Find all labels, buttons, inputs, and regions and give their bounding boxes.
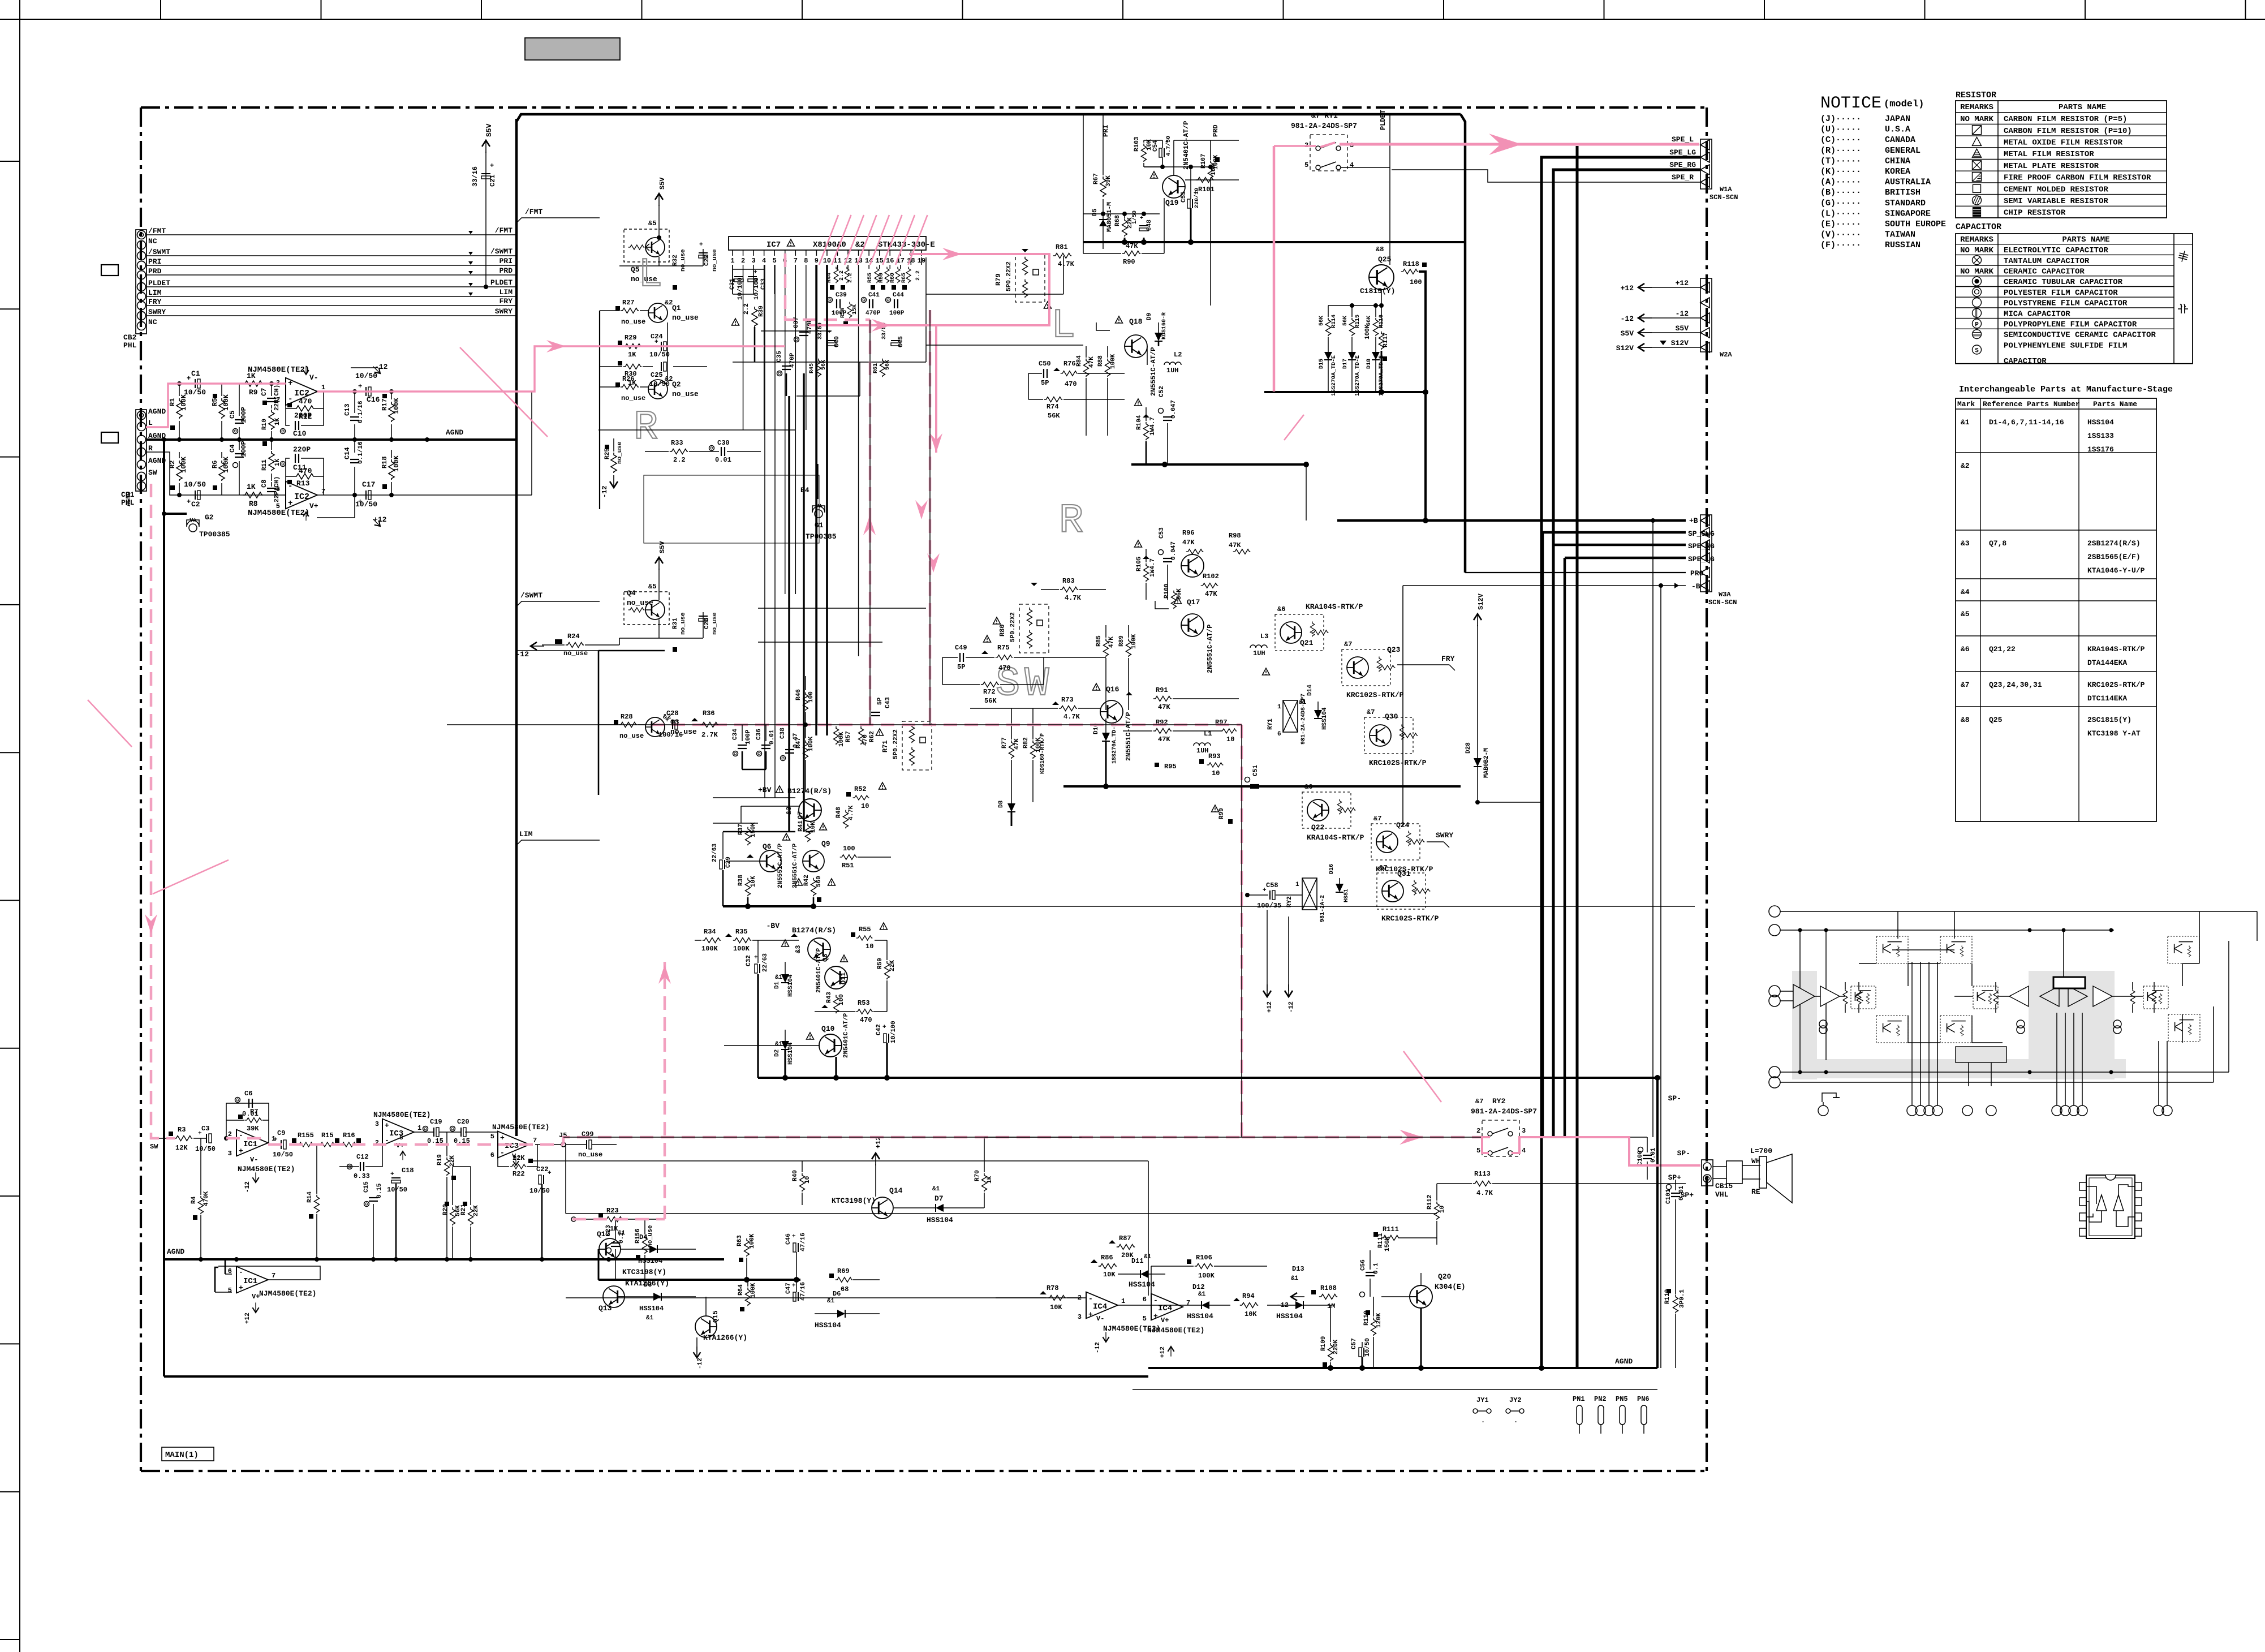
- capacitor C14: [354, 440, 355, 453]
- svg-text:R27: R27: [622, 299, 635, 307]
- svg-text:R91: R91: [1156, 686, 1168, 694]
- svg-text:V+: V+: [309, 502, 318, 510]
- svg-text:R116: R116: [1379, 315, 1385, 328]
- resistor R71 5P0.22X2: [902, 721, 932, 770]
- svg-text:R95: R95: [1164, 763, 1177, 771]
- svg-text:R42: R42: [803, 875, 810, 886]
- svg-text:C15: C15: [363, 1181, 370, 1193]
- relay RY1 coil: [1283, 700, 1298, 732]
- svg-text:R4: R4: [191, 1196, 197, 1204]
- svg-text:R43: R43: [826, 992, 833, 1003]
- svg-text:10: 10: [804, 1176, 811, 1184]
- svg-text:1SS270A_TD-E: 1SS270A_TD-E: [1355, 355, 1361, 396]
- connector CB2 PHL: [136, 230, 147, 334]
- resistor R13 470: [294, 474, 315, 479]
- svg-text:NOTICE: NOTICE: [1820, 94, 1881, 113]
- svg-text:R85: R85: [1096, 635, 1103, 647]
- svg-text:CB2: CB2: [123, 333, 137, 342]
- resistor R3 12K: [169, 1132, 173, 1136]
- svg-text:R54: R54: [840, 308, 846, 318]
- svg-text:R6: R6: [211, 461, 219, 468]
- svg-text:C4: C4: [229, 445, 236, 453]
- transistor Q3 (no_use): [645, 717, 665, 737]
- resistor R55b 10: [851, 932, 855, 937]
- svg-text:U.S.A: U.S.A: [1885, 125, 1910, 135]
- pink RY2 contact path: [1481, 1136, 1490, 1138]
- svg-text:R39: R39: [758, 306, 765, 317]
- svg-text:1: 1: [417, 1124, 421, 1132]
- svg-text:R40: R40: [792, 1170, 799, 1181]
- resistor R18: [391, 450, 392, 458]
- capacitor C37 470P: [794, 337, 799, 342]
- resistor R23 1K: [605, 1217, 623, 1222]
- resistor R107 100K: [1208, 161, 1213, 179]
- wire SPE_RG: [1553, 170, 1700, 1137]
- svg-text:5: 5: [228, 1287, 232, 1294]
- svg-text:R90: R90: [1123, 258, 1135, 266]
- svg-text:22K: 22K: [889, 960, 896, 971]
- svg-text:no_use: no_use: [621, 318, 645, 326]
- MAIN(1) label: [162, 1447, 214, 1461]
- capacitor C35 470P: [777, 371, 782, 376]
- svg-text:R59: R59: [877, 958, 884, 969]
- svg-text:2N5401C-AT/P: 2N5401C-AT/P: [1182, 121, 1190, 170]
- resistor R69 68: [836, 1277, 853, 1283]
- transistor Q14 KTC3198: [872, 1153, 880, 1165]
- svg-text:C58: C58: [1266, 881, 1278, 889]
- wire from IC7 pin9 to bottom: [815, 265, 817, 735]
- svg-text:R17: R17: [381, 398, 389, 411]
- svg-text:R101: R101: [1198, 186, 1215, 193]
- svg-text:5P: 5P: [877, 697, 884, 705]
- connector W3A SCN-SCN: [1700, 515, 1712, 592]
- svg-text:1: 1: [321, 384, 325, 392]
- speaker magnet: [1726, 1161, 1742, 1184]
- svg-text:KRA104S-RTK/P: KRA104S-RTK/P: [1306, 603, 1363, 611]
- svg-text:Q9: Q9: [821, 840, 830, 848]
- key box upper: [101, 265, 118, 276]
- svg-text:10: 10: [1212, 769, 1220, 777]
- wires Q18 area: [1147, 346, 1148, 365]
- svg-text:4: 4: [1350, 161, 1354, 169]
- svg-text:100K: 100K: [393, 397, 401, 414]
- svg-text:no_use: no_use: [578, 1151, 602, 1159]
- svg-text:-: -: [500, 1148, 505, 1157]
- svg-text:56K: 56K: [1319, 316, 1325, 326]
- block output pair bottom-mid: [1940, 1016, 1972, 1043]
- svg-text:R15: R15: [321, 1132, 334, 1139]
- svg-text:1SS176: 1SS176: [2087, 445, 2114, 454]
- svg-text:IC1: IC1: [243, 1140, 257, 1149]
- svg-text:R102: R102: [1203, 573, 1219, 580]
- pink trace IC7 hatches: [819, 215, 838, 265]
- svg-text:+: +: [239, 1284, 243, 1292]
- svg-text:PLDET: PLDET: [148, 279, 170, 287]
- svg-text:+: +: [753, 269, 757, 276]
- resistor R2: [179, 452, 180, 458]
- resistor R88 100K: [1105, 359, 1110, 377]
- svg-text:5P0.22X2: 5P0.22X2: [1006, 261, 1013, 291]
- capacitor C99 no_use: [587, 1140, 592, 1149]
- svg-text:5P: 5P: [957, 663, 965, 671]
- block resistors vertical: [1843, 989, 1848, 1005]
- pink trace down to L2: [935, 325, 937, 453]
- svg-text:120K: 120K: [1376, 1313, 1383, 1328]
- resistor R33 2.2: [670, 449, 688, 454]
- R29 C24 row: [618, 341, 622, 345]
- svg-text:CHINA: CHINA: [1885, 156, 1910, 166]
- svg-text:R: R: [1059, 498, 1083, 544]
- black wire under SW dash: [563, 1137, 1481, 1138]
- block driver pair left: [1851, 986, 1876, 1009]
- svg-text:2N5551C-AT/P: 2N5551C-AT/P: [777, 843, 784, 888]
- block driver pair right: [2143, 986, 2168, 1009]
- svg-text:B1274(R/S): B1274(R/S): [787, 787, 832, 795]
- junction J5: [561, 1142, 566, 1147]
- thick junction bus at 920: [1423, 518, 1428, 523]
- svg-text:R64: R64: [738, 1284, 744, 1296]
- svg-text:JAPAN: JAPAN: [1885, 114, 1910, 124]
- svg-text:10/50: 10/50: [273, 1151, 293, 1159]
- svg-text:&6: &6: [1277, 605, 1285, 613]
- pink annotation diagonals: [460, 347, 548, 437]
- svg-text:&4: &4: [1961, 588, 1970, 596]
- board outline MAIN dash-dot border: [141, 106, 1707, 109]
- capacitor C26 (no_use): [699, 616, 708, 621]
- svg-text:5: 5: [1476, 1147, 1480, 1155]
- svg-text:R61: R61: [873, 363, 879, 373]
- svg-text:2SB1274(R/S): 2SB1274(R/S): [2087, 539, 2141, 548]
- SWRY label and wire: [1427, 841, 1444, 842]
- block mid amp triangles: [2009, 986, 2029, 1006]
- svg-text:PN5: PN5: [1616, 1395, 1628, 1403]
- svg-text:AGND: AGND: [167, 1247, 184, 1256]
- svg-text:0.1/16: 0.1/16: [358, 401, 364, 423]
- svg-text:NJM4580E(TE2): NJM4580E(TE2): [238, 1165, 295, 1173]
- transistor Q2 (no_use): [648, 380, 668, 399]
- wire Q25 collector: [1419, 272, 1426, 392]
- pink trace IC7 output run: [809, 254, 1049, 325]
- AGND bus wire: [147, 438, 515, 441]
- block bottom pins: [1818, 1105, 1828, 1116]
- svg-text:D3: D3: [644, 1281, 652, 1289]
- svg-text:RUSSIAN: RUSSIAN: [1885, 240, 1920, 250]
- capacitor C15 0.15: [364, 1202, 369, 1207]
- svg-text:100K: 100K: [180, 394, 188, 411]
- svg-text:NC: NC: [148, 318, 157, 326]
- svg-text:C25: C25: [651, 371, 663, 379]
- svg-text:+: +: [699, 242, 703, 248]
- svg-text:STK433-330-E: STK433-330-E: [878, 240, 935, 249]
- svg-text:R71: R71: [881, 740, 889, 752]
- svg-text:L3: L3: [1260, 633, 1268, 640]
- block input amp triangles: [1793, 984, 1815, 1008]
- svg-text:R108: R108: [1320, 1284, 1337, 1292]
- svg-text:2: 2: [1476, 1127, 1480, 1135]
- capacitor C54 4.7/50: [1159, 148, 1164, 157]
- pink dashed SW source: [151, 484, 175, 1138]
- svg-text:+: +: [288, 499, 292, 508]
- block ground symbol: [1822, 1093, 1836, 1102]
- svg-text:C22: C22: [536, 1165, 549, 1173]
- svg-text:100K: 100K: [1110, 354, 1117, 369]
- svg-text:R55: R55: [859, 926, 871, 933]
- connector W1A SCN-SCN: [1700, 139, 1712, 189]
- svg-text:1K: 1K: [274, 418, 281, 425]
- svg-text:Q15: Q15: [712, 1310, 720, 1323]
- svg-text:981-2A-24DS-SP7: 981-2A-24DS-SP7: [1471, 1107, 1537, 1116]
- svg-text:LIM: LIM: [519, 830, 533, 838]
- capacitor C27 (no_use): [699, 253, 708, 258]
- block output pair top-left: [1876, 936, 1908, 963]
- svg-text:R13: R13: [296, 479, 310, 488]
- svg-text:R52: R52: [854, 785, 867, 793]
- svg-text:C16: C16: [367, 395, 380, 404]
- resistor R79 5P0.22X2: [1015, 253, 1045, 302]
- svg-text:2.7K: 2.7K: [701, 731, 718, 739]
- svg-text:470: 470: [1065, 380, 1077, 388]
- svg-text:SCN-SCN: SCN-SCN: [1708, 599, 1737, 606]
- svg-text:D2: D2: [774, 1049, 781, 1057]
- resistor R84 47K: [1084, 359, 1089, 377]
- svg-text:+: +: [274, 1137, 278, 1143]
- svg-text:D18: D18: [1366, 359, 1372, 369]
- svg-text:no_use: no_use: [672, 313, 699, 322]
- wire SPE_R: [1392, 170, 1700, 182]
- block output pair bottom-left: [1876, 1016, 1908, 1043]
- capacitor C34 100P: [733, 751, 738, 756]
- svg-text:0.047: 0.047: [1170, 541, 1177, 560]
- svg-text:(U)·····: (U)·····: [1820, 125, 1861, 135]
- svg-text:100/35: 100/35: [1257, 902, 1281, 910]
- transistor Q6 2N5551C-AT/P: [760, 850, 781, 872]
- resistor R80 5P0.22X2: [1019, 604, 1049, 653]
- resistor R36 2.7K: [691, 718, 698, 721]
- svg-text:1K: 1K: [628, 351, 636, 359]
- svg-text:HSS104: HSS104: [787, 974, 794, 997]
- svg-text:SPE_LG: SPE_LG: [1669, 148, 1696, 157]
- capacitor C12 0.33: [347, 1164, 352, 1169]
- resistor R119 3P0.1: [1667, 1289, 1671, 1293]
- svg-text:R70: R70: [974, 1170, 981, 1181]
- svg-text:Q18: Q18: [1129, 317, 1143, 326]
- svg-text:(K)·····: (K)·····: [1820, 167, 1861, 177]
- svg-text:22/63: 22/63: [762, 953, 769, 972]
- svg-text:R78: R78: [1047, 1284, 1059, 1292]
- svg-text:JY2: JY2: [1509, 1396, 1522, 1404]
- capacitor C3 10/50: [206, 1134, 212, 1143]
- svg-text:PRD: PRD: [499, 266, 513, 275]
- svg-text:-: -: [239, 1268, 243, 1276]
- svg-text:100K: 100K: [750, 1283, 757, 1298]
- wire SP+ run: [1519, 1137, 1647, 1138]
- svg-text:100K: 100K: [1364, 324, 1371, 339]
- svg-text:2.2: 2.2: [847, 273, 854, 283]
- svg-text:56K: 56K: [1342, 316, 1349, 326]
- svg-text:+: +: [490, 162, 494, 170]
- transistor Q13 KTA1266: [603, 1286, 625, 1307]
- svg-text:100P: 100P: [240, 441, 248, 457]
- svg-text:Q21,22: Q21,22: [1989, 645, 2016, 653]
- wire L input: [146, 384, 286, 427]
- svg-text:NJM4580E(TE2): NJM4580E(TE2): [248, 365, 309, 375]
- svg-text:&7: &7: [1475, 1098, 1483, 1105]
- bus wire +B: [1337, 519, 1686, 522]
- svg-text:10: 10: [1226, 735, 1234, 743]
- svg-text:+: +: [390, 1171, 394, 1178]
- svg-text:&5: &5: [1961, 610, 1970, 618]
- svg-text:C38: C38: [780, 728, 786, 739]
- svg-text:METAL OXIDE FILM RESISTOR: METAL OXIDE FILM RESISTOR: [2004, 138, 2123, 147]
- AGND right bus: [1148, 1367, 1657, 1369]
- svg-text:Interchangeable Parts at Manuf: Interchangeable Parts at Manufacture-Sta…: [1959, 385, 2173, 394]
- svg-text:TP00385: TP00385: [806, 532, 837, 541]
- bus wire lower Q25: [1264, 391, 1426, 393]
- svg-text:1: 1: [1295, 881, 1299, 888]
- wire R70 top: [984, 1137, 985, 1161]
- svg-text:CARBON FILM RESISTOR (P=5): CARBON FILM RESISTOR (P=5): [2004, 115, 2127, 124]
- svg-text:Q7,8: Q7,8: [1989, 539, 2006, 548]
- wire row y1150: [516, 650, 598, 651]
- svg-text:10/50: 10/50: [1364, 1338, 1371, 1357]
- svg-text:R34: R34: [704, 928, 716, 936]
- svg-text:+12: +12: [1160, 1346, 1166, 1358]
- diode D4 HSS104: [649, 1245, 657, 1253]
- svg-text:D13: D13: [1292, 1265, 1304, 1273]
- svg-text:S5V: S5V: [1676, 324, 1689, 333]
- svg-text:PLDET: PLDET: [1379, 110, 1387, 130]
- svg-text:R62: R62: [869, 731, 876, 742]
- capacitor C58 100/35: [1270, 890, 1275, 900]
- svg-text:&7: &7: [1373, 815, 1381, 823]
- svg-text:C8: C8: [260, 480, 268, 488]
- capacitor C1: [195, 379, 200, 388]
- title block (grayed): [525, 38, 620, 60]
- svg-text:KOREA: KOREA: [1885, 167, 1910, 177]
- resistor R22 22K loop: [498, 1157, 509, 1167]
- svg-text:R111: R111: [1383, 1225, 1399, 1233]
- svg-text:REMARKS: REMARKS: [1960, 103, 1993, 112]
- R104 C52 fuse resistor cluster: [1135, 399, 1142, 406]
- svg-text:TP00385: TP00385: [199, 530, 230, 539]
- transistor Q5 (no_use): [624, 229, 669, 262]
- svg-text:3: 3: [1078, 1313, 1082, 1321]
- wire R input: [146, 452, 286, 495]
- svg-text:STANDARD: STANDARD: [1885, 199, 1926, 208]
- svg-text:Q25: Q25: [1989, 716, 2003, 724]
- svg-text:6: 6: [1277, 731, 1281, 738]
- bus wire PRO: [1465, 572, 1686, 573]
- svg-text:Q23,24,30,31: Q23,24,30,31: [1989, 681, 2042, 689]
- svg-text:+: +: [1263, 887, 1267, 894]
- S12V arrow right: [1474, 614, 1482, 626]
- resistor R1: [179, 384, 180, 396]
- svg-text:METAL FILM RESISTOR: METAL FILM RESISTOR: [2004, 150, 2094, 159]
- R7 39K feedback: [238, 1115, 243, 1119]
- wire run to right: [566, 1213, 996, 1214]
- op-amp IC2 (L): [286, 378, 317, 405]
- capacitor C44 100P: [886, 298, 891, 303]
- svg-text:R8: R8: [249, 500, 258, 508]
- svg-text:C57: C57: [1351, 1338, 1358, 1349]
- svg-text:D4: D4: [639, 1233, 647, 1241]
- svg-text:CEMENT MOLDED RESISTOR: CEMENT MOLDED RESISTOR: [2004, 185, 2108, 194]
- svg-text:C56: C56: [1360, 1259, 1367, 1271]
- svg-text:S12V: S12V: [1616, 344, 1634, 352]
- resistor R90 47K: [1122, 251, 1140, 256]
- svg-text:+: +: [198, 1130, 202, 1137]
- capacitor C20 0.15: [450, 1126, 455, 1132]
- svg-text:R37: R37: [738, 824, 744, 835]
- svg-text:Parts Name: Parts Name: [2093, 400, 2137, 408]
- connector CB15 VHL: [1702, 1160, 1713, 1186]
- svg-text:MAB0B2-M: MAB0B2-M: [1483, 748, 1490, 778]
- block rail 2: [1780, 930, 2114, 931]
- svg-text:no_use: no_use: [619, 732, 644, 740]
- svg-text:R67: R67: [1093, 173, 1100, 184]
- svg-text:C40: C40: [834, 336, 841, 347]
- svg-text:R107: R107: [1200, 154, 1207, 169]
- svg-text:VHL: VHL: [1715, 1190, 1729, 1199]
- svg-text:D12: D12: [1192, 1283, 1205, 1291]
- svg-text:R87: R87: [1119, 1234, 1131, 1242]
- svg-text:W3A: W3A: [1719, 591, 1731, 599]
- svg-text:Q20: Q20: [1438, 1272, 1452, 1281]
- svg-text:33/16: 33/16: [471, 166, 479, 187]
- svg-text:100: 100: [808, 691, 815, 703]
- svg-text:(G)·····: (G)·····: [1820, 199, 1861, 208]
- svg-text:KDS160-R: KDS160-R: [1161, 312, 1168, 339]
- transistor Q24 KRC102S-RTK/P: [1371, 824, 1420, 860]
- svg-text:Mark: Mark: [1957, 400, 1975, 408]
- diode D9 KDS160-R: [1158, 322, 1159, 333]
- svg-text:R118: R118: [1403, 260, 1419, 268]
- svg-text:LIM: LIM: [499, 288, 513, 296]
- FRY label and wire: [1397, 664, 1449, 665]
- svg-text:R45: R45: [809, 363, 815, 373]
- svg-text:C45: C45: [898, 336, 905, 347]
- connector CB1 PHL: [136, 410, 147, 491]
- svg-text:100K: 100K: [222, 456, 230, 473]
- resistor R37 150K: [746, 827, 751, 845]
- -12 rail arrow mid: [531, 642, 544, 650]
- svg-text:PN2: PN2: [1594, 1395, 1607, 1403]
- svg-text:D1: D1: [774, 981, 781, 989]
- svg-text:KTC3198(Y): KTC3198(Y): [622, 1268, 666, 1276]
- svg-text:L2: L2: [1174, 351, 1182, 359]
- resistor R118 100: [1401, 269, 1419, 274]
- svg-text:R63: R63: [737, 1235, 743, 1246]
- svg-text:&1: &1: [1961, 418, 1970, 427]
- svg-text:C52: C52: [1159, 386, 1165, 397]
- R30 C25 row: [618, 361, 622, 365]
- block output pair top-mid: [1940, 936, 1972, 963]
- svg-text:MICA CAPACITOR: MICA CAPACITOR: [2004, 309, 2070, 319]
- svg-text:R117: R117: [1383, 333, 1389, 347]
- resistor R75 470: [996, 655, 1013, 660]
- svg-text:Q25: Q25: [1378, 255, 1392, 264]
- svg-text:10K: 10K: [1245, 1310, 1257, 1318]
- svg-text:POLYSTYRENE FILM CAPACITOR: POLYSTYRENE FILM CAPACITOR: [2004, 299, 2128, 308]
- relay RY2 coil: [1302, 878, 1317, 910]
- svg-text:R75: R75: [997, 644, 1010, 652]
- svg-text:12K: 12K: [175, 1144, 188, 1152]
- capacitor C2: [195, 491, 200, 500]
- svg-text:R106: R106: [1196, 1254, 1212, 1262]
- svg-text:PARTS NAME: PARTS NAME: [2062, 235, 2109, 244]
- svg-text:1UH: 1UH: [1196, 747, 1209, 755]
- svg-text:6: 6: [490, 1151, 494, 1159]
